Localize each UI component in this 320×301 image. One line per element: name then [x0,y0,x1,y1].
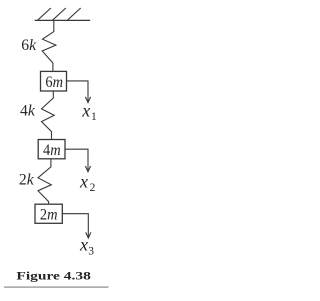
svg-text:Figure 4.38: Figure 4.38 [16,269,91,282]
ceiling [35,8,90,20]
spring 6k [42,20,56,71]
arrow x2 [65,149,91,172]
svg-text:2m: 2m [40,207,58,224]
svg-text:6m: 6m [45,74,63,91]
mass 2m [35,204,62,223]
arrow x3 [62,214,91,238]
mass 4m [38,140,65,160]
svg-text:x3: x3 [79,235,94,258]
svg-text:x2: x2 [79,172,96,194]
arrow x1 [67,81,91,103]
svg-text:4m: 4m [43,142,61,159]
mass 6m [41,71,67,91]
caption rule [4,286,109,288]
svg-text:4k: 4k [20,102,36,119]
spring 4k [42,91,55,140]
svg-text:6k: 6k [21,37,37,54]
svg-text:x1: x1 [81,101,97,123]
svg-text:2k: 2k [19,172,35,189]
spring 2k [38,159,51,204]
